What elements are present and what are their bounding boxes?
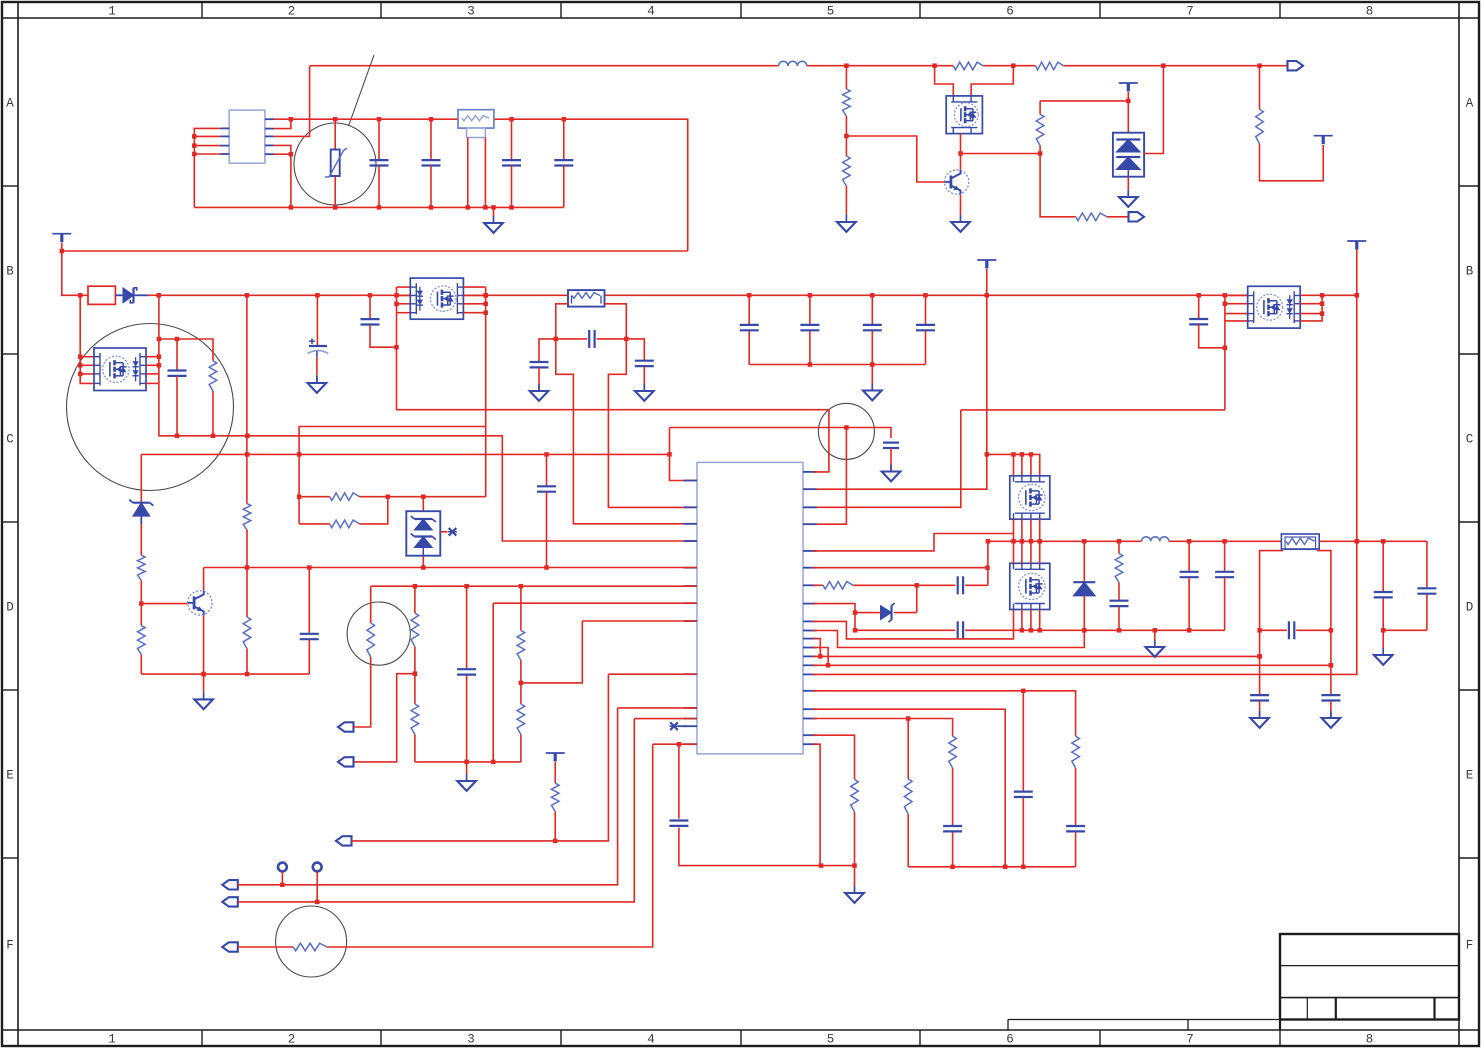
output connector P2 bbox=[1129, 212, 1145, 221]
wire main bus B bbox=[62, 250, 688, 252]
capacitor C19 bbox=[669, 744, 854, 865]
ground G7 bbox=[530, 384, 549, 401]
junction dots R11 row bbox=[386, 494, 426, 499]
wire l7 drop bbox=[492, 603, 494, 762]
capacitor C9 bbox=[556, 330, 627, 348]
capacitor C17 bbox=[958, 621, 1225, 639]
svg-text:D: D bbox=[1466, 601, 1474, 615]
IC U1 bbox=[229, 110, 265, 163]
resistor R20 bbox=[367, 623, 375, 657]
capacitor C23 bbox=[1260, 621, 1331, 639]
connector P3 bbox=[338, 722, 354, 731]
wire F2 tap left bbox=[556, 304, 695, 524]
wire U2 l13 bbox=[653, 743, 697, 745]
junction dot R22 bbox=[519, 681, 524, 686]
resistor R27 bbox=[1072, 736, 1080, 825]
no-connect X1 bbox=[448, 528, 457, 536]
svg-text:8: 8 bbox=[1366, 1033, 1374, 1047]
wire M3 pin t1 bbox=[1013, 454, 1015, 475]
wire U2 r13 long bbox=[813, 655, 1260, 657]
ground G8 bbox=[635, 384, 654, 401]
junction dot zener top bbox=[915, 583, 920, 588]
wire M5 pin l1 bbox=[1225, 295, 1248, 297]
resistor R5 bbox=[1036, 101, 1044, 154]
capacitor C5 bbox=[168, 339, 187, 436]
capacitor C11 bbox=[740, 295, 759, 364]
capacitor C31 bbox=[943, 826, 962, 867]
wire R20 top bbox=[370, 586, 372, 623]
resistor R18 bbox=[243, 568, 251, 675]
svg-text:5: 5 bbox=[827, 5, 835, 19]
wire cap bank rail bbox=[749, 364, 925, 366]
ground G13 bbox=[845, 886, 864, 903]
resistor R22 bbox=[517, 586, 525, 683]
power T3 bbox=[1347, 241, 1366, 250]
wire long sense mid bbox=[961, 409, 1225, 411]
junction dot T1 bbox=[60, 249, 65, 254]
wire snub bottom rail bbox=[159, 436, 695, 541]
junction dot cap riser bbox=[986, 539, 991, 544]
ground G3 bbox=[951, 215, 970, 232]
wire M5 right chain bbox=[1300, 295, 1322, 321]
mosfet M6 bbox=[935, 66, 1014, 134]
wire M2 right chain bbox=[485, 287, 487, 497]
ground G17 bbox=[1374, 648, 1393, 665]
junction dot snub cap bbox=[175, 337, 180, 342]
capacitor C16 bbox=[958, 576, 988, 594]
wire cluster rail bbox=[908, 866, 1075, 868]
junction dots bias rail bbox=[201, 672, 249, 677]
junction dots R16 taps bbox=[1257, 628, 1333, 668]
wire R13 to C16 bbox=[853, 584, 955, 586]
ground G15 bbox=[1250, 711, 1269, 728]
capacitor C1 bbox=[370, 119, 389, 207]
wire R11 to D4 bbox=[360, 496, 486, 498]
wire M1 pin stub l2 bbox=[80, 364, 94, 366]
junction dots bus C row bbox=[156, 293, 1359, 298]
wire M5 pin r3 bbox=[1300, 313, 1322, 315]
wire sense row bbox=[141, 453, 669, 455]
wire node collector bbox=[961, 153, 1041, 155]
wire U1 pin 5 bbox=[274, 153, 291, 155]
svg-text:1: 1 bbox=[108, 1033, 116, 1047]
ground G6 bbox=[308, 376, 327, 393]
junction dots l6 bbox=[413, 584, 524, 589]
svg-text:4: 4 bbox=[647, 5, 655, 19]
junction dots divider rail bbox=[464, 760, 495, 765]
svg-text:E: E bbox=[6, 769, 14, 783]
svg-text:A: A bbox=[6, 97, 14, 111]
annotation circle at node VIN sense bbox=[818, 403, 874, 459]
wire M2 pin l3 bbox=[397, 303, 411, 305]
junction dot VREF bbox=[1126, 99, 1131, 104]
wire U2 r16 long bbox=[813, 691, 1076, 736]
svg-text:C: C bbox=[6, 433, 14, 447]
wire gnd stub D bbox=[1154, 630, 1156, 640]
junction dot r6 bbox=[985, 565, 990, 570]
junction dots FL1 bbox=[509, 117, 566, 122]
wire U2 r10 jog bbox=[813, 630, 1084, 647]
wire P8 row left bbox=[238, 946, 293, 948]
wire R10 chain bbox=[246, 295, 248, 503]
transistor Q2 bbox=[188, 591, 212, 615]
svg-text:6: 6 bbox=[1006, 1033, 1014, 1047]
wire zener drop bbox=[916, 585, 918, 612]
wire M4 pin b 1039.7 bbox=[1039, 610, 1041, 631]
filter FL1 bbox=[458, 110, 494, 208]
mosfet M4 bbox=[1010, 563, 1050, 610]
resistor R17 bbox=[138, 604, 146, 675]
IC U1 pins bbox=[221, 119, 274, 154]
junction dots M5 left bbox=[1223, 301, 1228, 350]
wire cap riser C16 bbox=[987, 541, 989, 585]
wire M3 pin t3 bbox=[1030, 454, 1032, 475]
svg-text:F: F bbox=[1466, 939, 1474, 953]
resistor R21 bbox=[411, 674, 419, 762]
wire P4 riser bbox=[353, 674, 415, 762]
wire cap C18 riser bbox=[546, 454, 548, 486]
wire R6 to connector bbox=[1107, 216, 1129, 218]
capacitor C24 bbox=[1250, 695, 1269, 718]
capacitor C28 bbox=[1189, 295, 1225, 348]
annotation circle around varistor RV1 bbox=[294, 123, 376, 205]
junction dots rail A bbox=[333, 205, 514, 210]
junction dot VIN bbox=[844, 425, 849, 430]
inductor L1 bbox=[779, 61, 807, 70]
junction dots cluster rail bbox=[950, 865, 1025, 870]
ground G9 bbox=[882, 465, 901, 482]
wire M1 right chain bbox=[158, 295, 161, 436]
wire M4 pin b 1030.9 bbox=[1030, 610, 1032, 631]
transistor Q1 bbox=[945, 170, 969, 194]
power T2 bbox=[977, 260, 996, 295]
wire M1 pin stub r4 bbox=[146, 382, 159, 384]
capacitor C4 bbox=[554, 119, 573, 207]
mosfet M2 bbox=[410, 278, 464, 319]
junction dots top net bbox=[844, 63, 1262, 67]
wire U2 r18 bbox=[813, 719, 953, 737]
wire M1 pin stub r3 bbox=[146, 373, 159, 375]
wire M4 pin t 1039.7 bbox=[1039, 541, 1041, 563]
power VREF T4 bbox=[1119, 83, 1138, 101]
wire R12 row bbox=[299, 523, 330, 525]
resistor R8 bbox=[209, 361, 217, 436]
connector P5 bbox=[336, 836, 352, 845]
wire bus D bbox=[988, 540, 1427, 542]
electrolytic C6 bbox=[308, 339, 329, 384]
svg-text:5: 5 bbox=[827, 1033, 835, 1047]
svg-text:7: 7 bbox=[1186, 1033, 1194, 1047]
annotation circle around resistor R30 bbox=[276, 906, 347, 977]
junction dot r18 bbox=[906, 716, 911, 721]
wire M3 pin b 1013.5 bbox=[1013, 519, 1015, 541]
connector P7 bbox=[222, 897, 238, 906]
wire P8 row right bbox=[327, 744, 653, 947]
wire U2 l8 bbox=[582, 620, 697, 622]
wire M4 pin t 1013.5 bbox=[1013, 541, 1015, 563]
junction dots M1 left bbox=[78, 354, 83, 376]
junction dot r13 bbox=[818, 654, 1262, 659]
wire R16 tap right bbox=[1317, 551, 1331, 695]
resistor R7 bbox=[1256, 109, 1264, 144]
capacitor C22 bbox=[1215, 541, 1234, 630]
wire T2 power drop bbox=[803, 295, 987, 489]
junction dot fuse feed bbox=[78, 293, 83, 298]
ground G5 bbox=[1119, 190, 1138, 207]
zener D2 bbox=[129, 500, 153, 556]
power T1 bbox=[52, 234, 71, 251]
wire R12 wrap bbox=[360, 497, 388, 524]
capacitor C8 bbox=[530, 339, 556, 391]
wire U2 l10 bbox=[618, 707, 697, 709]
ground G16 bbox=[1322, 711, 1341, 728]
wire R3 to R4 bbox=[845, 116, 847, 156]
ground G11 bbox=[194, 692, 213, 709]
mosfet M5 bbox=[1247, 286, 1301, 328]
junction dot D4 rail bbox=[421, 565, 426, 570]
wire R7 to T5 bbox=[1260, 144, 1324, 181]
junction dots C2 bbox=[429, 117, 434, 210]
resistor R28 bbox=[293, 943, 327, 951]
capacitor C3 bbox=[502, 119, 521, 207]
svg-text:7: 7 bbox=[1186, 5, 1194, 19]
wire to output P1 bbox=[1260, 65, 1288, 67]
mosfet M3 bbox=[1010, 475, 1050, 519]
wire loop down bbox=[298, 454, 300, 524]
wire M4 pin t 1021.9 bbox=[1021, 541, 1023, 563]
svg-text:F: F bbox=[6, 939, 14, 953]
resistor R24 bbox=[551, 783, 559, 841]
wire M4 pin t 1030.9 bbox=[1030, 541, 1032, 563]
wire U1 pin to gate riser bbox=[274, 66, 310, 137]
junction dots M1 right bbox=[157, 337, 162, 368]
resistor R3 bbox=[843, 89, 851, 116]
wire P5 row bbox=[352, 674, 609, 841]
wire R6 output leg bbox=[1040, 154, 1076, 217]
ground G14 bbox=[1146, 640, 1165, 657]
wire M1 gate chain bbox=[80, 295, 94, 383]
wire M1 pin stub r1 bbox=[146, 356, 159, 358]
IC U2 pins bbox=[684, 472, 817, 744]
wire C26 C27 rail bbox=[1383, 629, 1427, 631]
junction dots varistor bbox=[333, 117, 338, 122]
junction dots C1 bbox=[377, 117, 382, 210]
wire gnd stub E bbox=[854, 866, 856, 886]
junction dot M6 source bbox=[958, 151, 963, 156]
junction dots l5 rail bbox=[245, 565, 549, 570]
ground G4 bbox=[837, 215, 856, 232]
junction dots r8 bbox=[853, 610, 858, 632]
varistor RV1 bbox=[325, 119, 347, 207]
resistor R4 bbox=[843, 156, 851, 186]
wire l8 jog bbox=[521, 621, 582, 683]
mosfet M1 bbox=[94, 348, 147, 391]
wire M2 left chain bbox=[397, 287, 829, 410]
wire U1 left pin 2 bbox=[194, 135, 220, 137]
wire U2 r6 bbox=[813, 567, 988, 569]
wire r18 drop bbox=[907, 719, 909, 779]
junction dot J2 bbox=[315, 900, 320, 905]
svg-text:A: A bbox=[1466, 97, 1474, 111]
wire M3 pin b 1039.7 bbox=[1039, 519, 1041, 541]
wire R11 row bbox=[299, 496, 330, 498]
wire U1 left pin 4 bbox=[194, 153, 220, 155]
zener D5 bbox=[872, 603, 917, 622]
wire U1 left pin 1 bbox=[194, 128, 220, 207]
wire U2 r12 jog bbox=[813, 648, 828, 666]
ground G2 bbox=[863, 384, 882, 401]
pin J2 bbox=[313, 863, 322, 902]
resistor R15 bbox=[1115, 541, 1123, 600]
wire U2 r11 jog bbox=[813, 639, 820, 657]
no-connect X2 bbox=[670, 722, 688, 730]
annotation circle around resistor R20 bbox=[347, 602, 410, 665]
capacitor C2 bbox=[422, 119, 441, 207]
junction dots cap bank bbox=[808, 362, 875, 367]
svg-text:3: 3 bbox=[467, 1033, 475, 1047]
junction dot T6 bbox=[553, 839, 558, 844]
junction dots bus D bbox=[1011, 539, 1385, 544]
svg-text:6: 6 bbox=[1006, 5, 1014, 19]
connector P4 bbox=[338, 757, 354, 766]
svg-text:3: 3 bbox=[467, 5, 475, 19]
capacitor C33 bbox=[1066, 826, 1085, 867]
wire M2 pin l1 bbox=[397, 286, 411, 288]
wire top net bbox=[310, 65, 1260, 67]
wire M3 pin b 1021.9 bbox=[1021, 519, 1023, 541]
wire F2 tap right bbox=[605, 304, 696, 508]
resistor R9 bbox=[138, 555, 146, 603]
wire M1 pin stubs left bbox=[80, 356, 94, 358]
junction dots M5 right bbox=[1320, 301, 1325, 315]
capacitor C30 bbox=[457, 586, 476, 774]
wire M5 pin l4 bbox=[1225, 320, 1248, 322]
svg-text:4: 4 bbox=[647, 1033, 655, 1047]
svg-text:E: E bbox=[1466, 769, 1474, 783]
sense resistor R16 bbox=[1281, 534, 1319, 550]
wire U2 r1 bbox=[813, 410, 829, 472]
wire M2 pin r3 bbox=[463, 303, 485, 305]
output connector P1 bbox=[1288, 61, 1304, 70]
wire M2 pin r4 bbox=[463, 312, 485, 314]
wire U1 pin wrap down bbox=[274, 145, 291, 207]
capacitor C29 bbox=[300, 568, 319, 675]
resistor R25 bbox=[904, 779, 912, 867]
wire Q1 emitter bbox=[960, 195, 962, 216]
power T6 bbox=[546, 753, 565, 783]
wire M6 source bbox=[960, 134, 962, 170]
junction dot R19 bbox=[413, 671, 418, 676]
junction dot r14 bbox=[826, 663, 1333, 668]
diode D6 bbox=[1073, 541, 1095, 630]
junction dot R3 R4 bbox=[844, 134, 849, 139]
wire M2 pin r2 bbox=[463, 295, 485, 297]
capacitor C13 bbox=[863, 295, 882, 364]
svg-text:2: 2 bbox=[288, 5, 296, 19]
svg-text:C: C bbox=[1466, 433, 1474, 447]
wire divider rail bbox=[415, 761, 521, 763]
svg-text:8: 8 bbox=[1366, 5, 1374, 19]
resistor R11 bbox=[330, 493, 360, 501]
resistor R26 bbox=[949, 736, 957, 825]
svg-text:1: 1 bbox=[108, 5, 116, 19]
wire U2 r15 long bbox=[813, 248, 1357, 674]
wire U2 r7 row bbox=[813, 584, 823, 586]
capacitor C12 bbox=[800, 295, 819, 364]
wire P7 row bbox=[238, 719, 635, 902]
wire M3 pin t2 bbox=[1021, 454, 1023, 475]
wire R16 tap left bbox=[1260, 551, 1283, 695]
wire VIN row bbox=[670, 428, 892, 439]
fuse F1 bbox=[88, 286, 115, 304]
wire D3 to gnd bbox=[1127, 177, 1129, 190]
wire U2 l11 bbox=[634, 718, 697, 720]
connector P6 bbox=[222, 880, 238, 889]
capacitor C20 bbox=[1110, 601, 1129, 631]
wire D4 to rail bbox=[422, 556, 424, 568]
junction dots lower bus bbox=[1082, 628, 1191, 633]
wire U2 r9 jog bbox=[813, 610, 1014, 639]
wire M3 pin b 1030.9 bbox=[1030, 519, 1032, 541]
wire M1 pin stub r2 bbox=[146, 364, 159, 366]
wire P3 row bbox=[354, 657, 371, 727]
wire bus VIN top bbox=[274, 119, 688, 251]
connector P8 bbox=[222, 942, 238, 951]
wire U2 r14 long bbox=[813, 664, 1331, 666]
wire electrolytic riser bbox=[316, 295, 318, 346]
capacitor C32 bbox=[1014, 691, 1033, 867]
wire snub rail bbox=[159, 339, 213, 361]
junction dot M3 feed bbox=[985, 452, 990, 457]
junction dot C26 bbox=[1381, 628, 1386, 633]
junction dots T3 line bbox=[1355, 293, 1360, 544]
wire gnd stub C26 bbox=[1382, 630, 1384, 648]
inductor L2 bbox=[1142, 536, 1169, 546]
capacitor C14 bbox=[916, 295, 935, 364]
junction dot emitter bbox=[201, 672, 206, 677]
annotation callout line bbox=[349, 55, 375, 126]
resistor R14 bbox=[851, 780, 859, 866]
wire R3 riser bbox=[845, 66, 847, 89]
resistor R2 bbox=[1036, 61, 1064, 72]
wire M2 pin l2 bbox=[397, 295, 411, 297]
capacitor C26 bbox=[1374, 541, 1393, 630]
wire IC pin riser bbox=[670, 428, 698, 481]
resistor R23 bbox=[517, 683, 525, 762]
wire U2 r17 bbox=[813, 709, 1005, 867]
wire M5 pin r2 bbox=[1300, 303, 1322, 305]
resistor R10 bbox=[243, 504, 251, 568]
dual zener D4 bbox=[406, 497, 447, 556]
svg-text:2: 2 bbox=[288, 1033, 296, 1047]
wire U2 l5 rail bbox=[204, 567, 697, 569]
annotation circle around mosfet Q1 area bbox=[67, 324, 234, 491]
junction dots M4 bottom bbox=[1020, 628, 1042, 633]
wire R4 to gnd bbox=[845, 186, 847, 215]
resistor R19 bbox=[411, 586, 419, 674]
wire U2 l7 bbox=[493, 602, 697, 604]
wire M3 top feed bbox=[987, 454, 1040, 475]
IC U2 bbox=[697, 462, 803, 754]
wire bottom rail A bbox=[194, 206, 564, 208]
capacitor C15 bbox=[883, 443, 899, 472]
junction dots M2 left bbox=[394, 302, 399, 350]
junction dot l13 bbox=[677, 742, 682, 747]
wire loop up bbox=[299, 427, 486, 455]
junction dot J1 bbox=[280, 883, 285, 888]
svg-text:B: B bbox=[1466, 265, 1474, 279]
wire M4 pin b 1021.9 bbox=[1021, 610, 1023, 631]
